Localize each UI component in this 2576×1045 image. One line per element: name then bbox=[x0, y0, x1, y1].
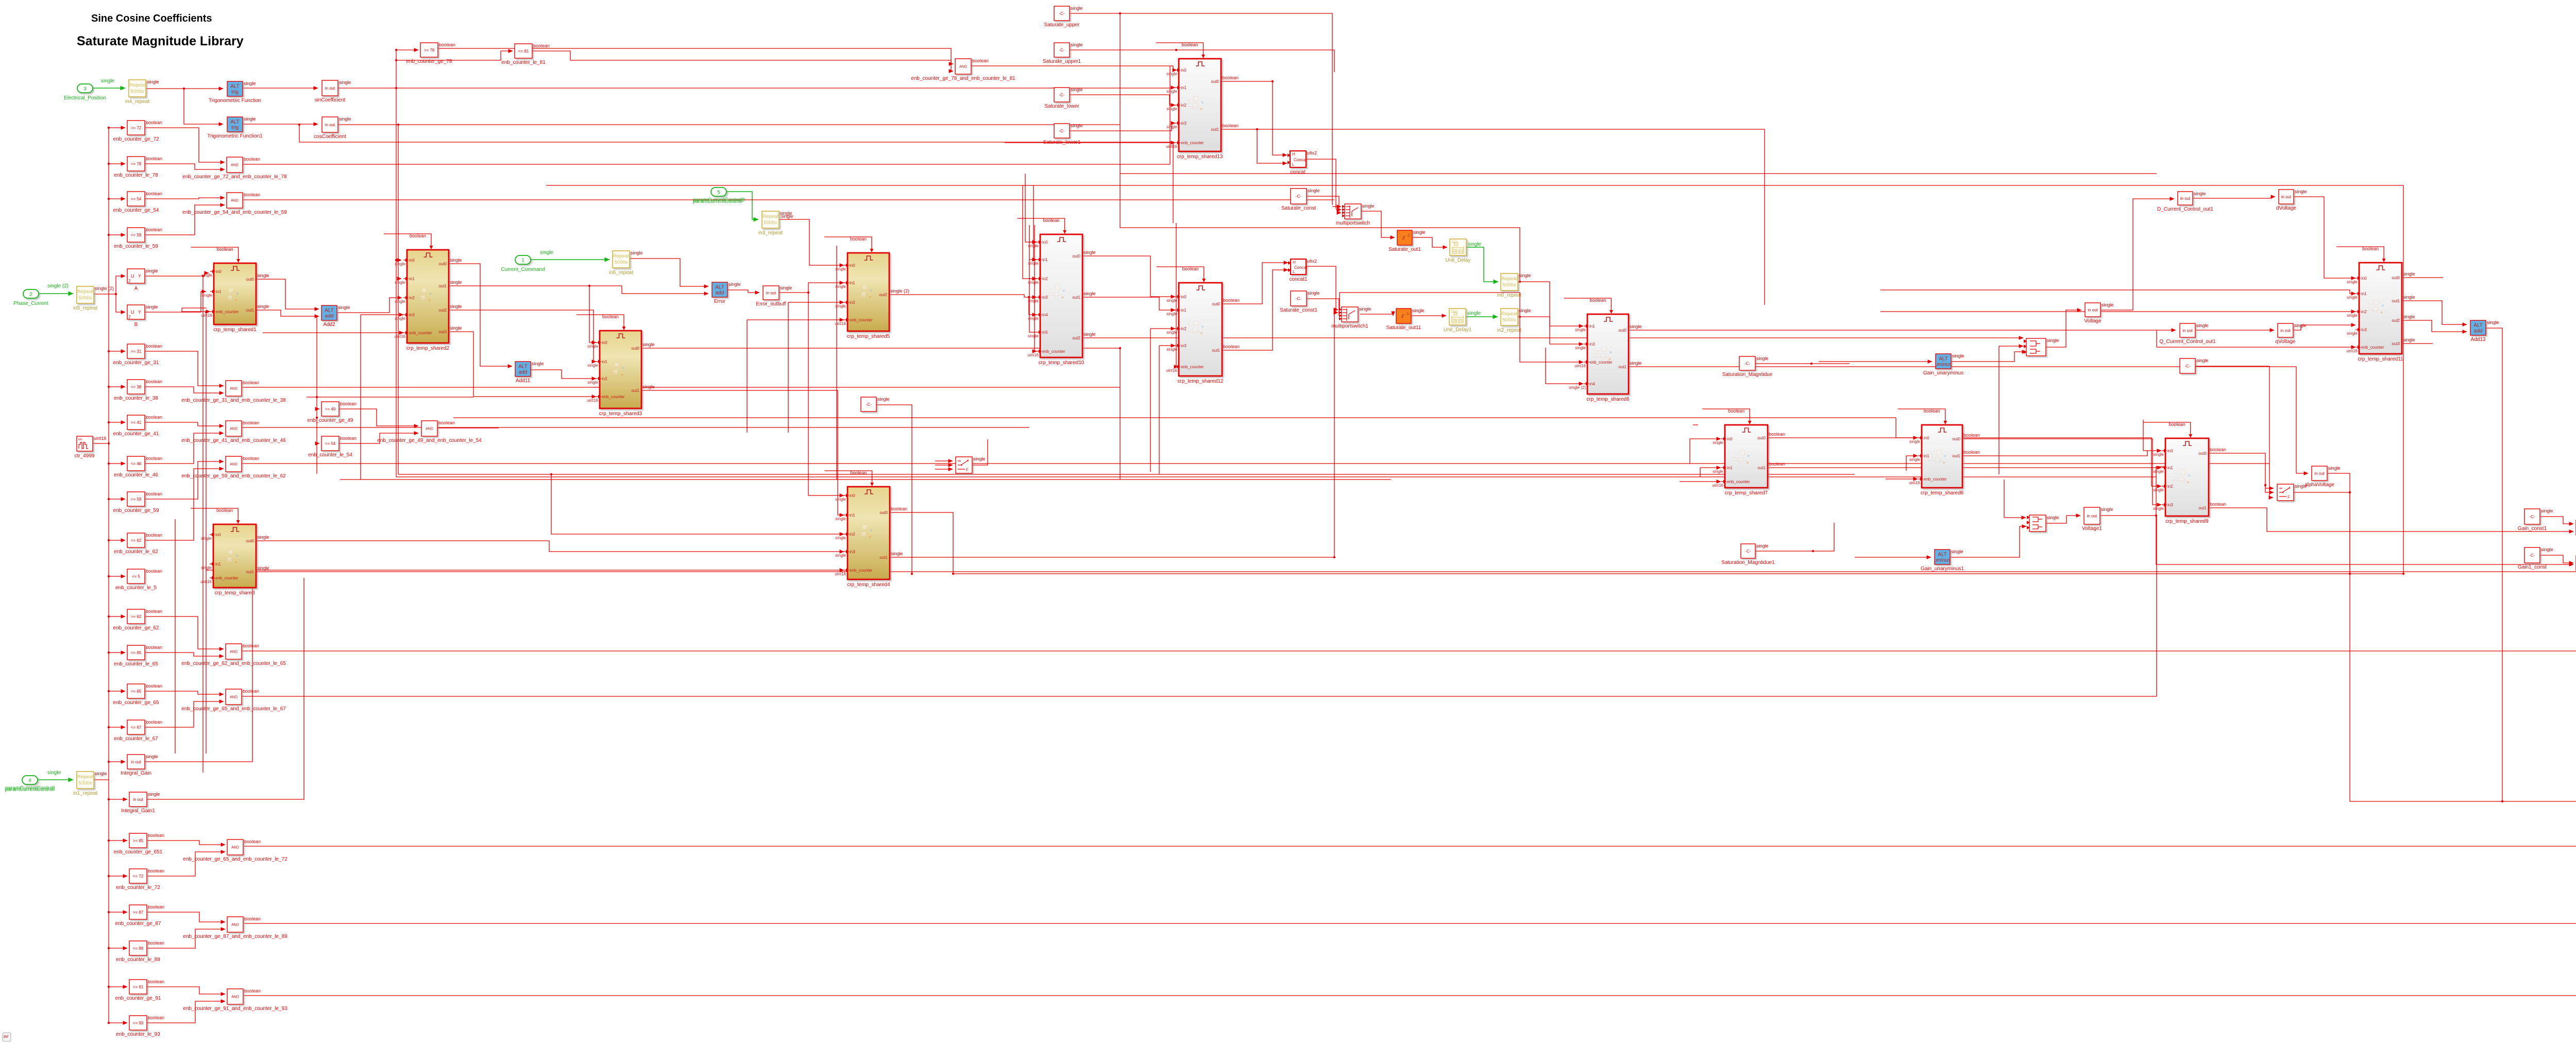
inport block Q_Current_Control_out1 bbox=[2159, 323, 2216, 345]
svg-text:out0: out0 bbox=[631, 346, 639, 351]
wire trunk AND ge54le59 y388 bbox=[242, 199, 1334, 200]
wire trunk y276 bbox=[299, 125, 1173, 223]
wire crp7 out0 to crp9 in2 bbox=[1768, 438, 2161, 486]
wire into switch1 mid bbox=[935, 465, 953, 466]
svg-text:boolean: boolean bbox=[146, 533, 162, 538]
svg-text:Gain_unaryminus: Gain_unaryminus bbox=[1923, 370, 1963, 376]
svg-text:H: H bbox=[1292, 152, 1295, 157]
wire boolean enable into subsystem crp_temp_shared12 bbox=[1157, 266, 1206, 282]
svg-text:in0: in0 bbox=[1181, 295, 1187, 299]
junction crp4 out0 trunk bbox=[952, 573, 954, 575]
svg-text:uint16: uint16 bbox=[394, 334, 405, 339]
svg-text:in3: in3 bbox=[2167, 503, 2173, 507]
AND gate enb_counter_ge_91_and_enb_counter_le_93 bbox=[183, 988, 287, 1012]
svg-text:add: add bbox=[325, 314, 334, 319]
wire ctr_4999 to trunk bbox=[93, 443, 107, 444]
svg-text:in0: in0 bbox=[2167, 449, 2173, 453]
wire trunk y1556 to Add1 in1 bbox=[2502, 801, 2576, 807]
compare block enb_counter_le_78 bbox=[114, 156, 162, 178]
svg-text:single: single bbox=[2153, 469, 2164, 474]
subsystem crp_temp_shared6 bbox=[1569, 314, 1641, 402]
svg-text:uint16: uint16 bbox=[587, 398, 598, 403]
svg-text:Concat: Concat bbox=[1294, 265, 1308, 270]
wire into crp9 in0 bbox=[2143, 450, 2161, 451]
compare block enb_counter_ge_78 bbox=[406, 42, 456, 64]
AND gate enb_counter_ge_49_and_enb_counter_le_54 bbox=[377, 420, 482, 443]
junction Integral_Gain input bbox=[108, 761, 110, 763]
svg-text:single: single bbox=[532, 361, 544, 366]
wire trunk y171 into crp13 in1 bbox=[1173, 88, 1175, 88]
svg-text:enb_counter_le_81: enb_counter_le_81 bbox=[501, 60, 546, 65]
svg-text:single: single bbox=[339, 80, 351, 85]
svg-text:-1: -1 bbox=[1406, 313, 1409, 316]
subsystem crp_temp_shared13 bbox=[1166, 59, 1239, 160]
svg-text:>= 54: >= 54 bbox=[131, 197, 142, 201]
svg-text:in0: in0 bbox=[850, 493, 855, 498]
wire enb_counter_ge_41_and_enb_counter_le_46 input A bbox=[145, 422, 224, 426]
wire Saturate_upper down to y360 bbox=[1120, 13, 1121, 185]
svg-text:in0: in0 bbox=[1727, 437, 1733, 441]
wire Saturate_lower to crp13 in2 bbox=[1070, 95, 1175, 105]
svg-text:in2_repeat: in2_repeat bbox=[1497, 328, 1521, 333]
compare block enb_counter_ge_72 bbox=[113, 120, 163, 142]
svg-text:5000x: 5000x bbox=[1503, 282, 1516, 288]
svg-text:single: single bbox=[147, 79, 159, 84]
svg-text:ALT: ALT bbox=[715, 285, 724, 290]
junction le54 input bbox=[316, 442, 318, 444]
svg-text:single: single bbox=[1083, 250, 1096, 255]
svg-text:F: F bbox=[966, 468, 969, 472]
svg-text:in0: in0 bbox=[1042, 240, 1048, 245]
wire boolean enable into subsystem crp_temp_shared3 bbox=[577, 314, 626, 330]
wire boolean enable into subsystem crp_temp_shared1 bbox=[191, 247, 241, 263]
svg-text:boolean: boolean bbox=[244, 157, 260, 162]
subsystem crp_temp_shared7 bbox=[1712, 425, 1785, 496]
svg-text:out1: out1 bbox=[631, 388, 639, 393]
wire Saturate_upper1 trunk bbox=[1070, 50, 1334, 72]
wire Unit_Delay to in0_repeat bbox=[1466, 247, 1498, 282]
wire sinCoefficient trunk y171 bbox=[338, 88, 1173, 89]
junction x615 y811 bbox=[316, 417, 318, 419]
compare block enb_counter_le_72 bbox=[116, 868, 164, 890]
svg-text:boolean: boolean bbox=[148, 979, 164, 984]
input port 1 Current_Command bbox=[501, 255, 545, 272]
svg-text:in out: in out bbox=[2314, 471, 2325, 476]
svg-text:dVoltage: dVoltage bbox=[2276, 205, 2296, 211]
wire D_Current_Control_out1 to dVoltage bbox=[2193, 197, 2275, 198]
svg-text:single: single bbox=[1519, 308, 1531, 313]
svg-text:enb_counter_ge_49_and_enb_coun: enb_counter_ge_49_and_enb_counter_le_54 bbox=[377, 438, 482, 443]
svg-text:out1: out1 bbox=[1618, 365, 1626, 369]
svg-text:boolean: boolean bbox=[146, 645, 162, 650]
svg-text:boolean: boolean bbox=[148, 940, 164, 946]
svg-text:single: single bbox=[146, 754, 158, 759]
svg-text:in1: in1 bbox=[1181, 308, 1187, 313]
wire crp9 out1 to Gain1 in2 bbox=[2209, 508, 2573, 532]
compare block enb_counter_le_81 bbox=[501, 43, 550, 65]
svg-text:single: single bbox=[244, 116, 256, 122]
wire enb_counter_ge_91_and_enb_counter_le_93 input A bbox=[147, 987, 225, 994]
svg-text:single: single bbox=[2487, 320, 2499, 325]
svg-text:single: single bbox=[1028, 299, 1039, 303]
wire in2_repeat branch to crp6 enb bbox=[1520, 317, 1583, 362]
svg-text:in1: in1 bbox=[216, 289, 222, 294]
svg-text:single: single bbox=[1166, 72, 1177, 76]
junction at enb_counter_ge_62 input bbox=[108, 615, 110, 618]
svg-text:in1_repeat: in1_repeat bbox=[73, 791, 97, 796]
svg-text:in3: in3 bbox=[2361, 328, 2367, 332]
svg-text:single: single bbox=[1166, 312, 1177, 316]
svg-text:single: single bbox=[835, 284, 846, 289]
svg-text:in3_repeat: in3_repeat bbox=[758, 230, 783, 236]
subsystem crp_temp_shared3 bbox=[587, 331, 654, 417]
junction Integral_Gain1 input bbox=[108, 798, 110, 800]
compare block enb_counter_le_38 bbox=[114, 379, 162, 401]
svg-text:single: single bbox=[1909, 457, 1920, 462]
wire Gain_unaryminus1 to mux3b bbox=[1951, 526, 2026, 557]
inport block Integral_Gain bbox=[121, 754, 158, 776]
svg-text:single: single bbox=[1359, 306, 1371, 312]
compare block enb_counter_ge_49 bbox=[308, 401, 357, 423]
constant block Saturate_const bbox=[1281, 188, 1320, 211]
wire into enb_counter_le_89 bbox=[109, 948, 127, 949]
svg-text:2: 2 bbox=[128, 315, 131, 319]
wire into enb_counter_le_46 bbox=[109, 463, 125, 464]
wire into Gain_unaryminus1 bbox=[1855, 557, 1931, 558]
svg-text:out3: out3 bbox=[438, 330, 447, 334]
svg-text:out1: out1 bbox=[2198, 506, 2207, 510]
svg-text:single: single bbox=[1028, 261, 1039, 266]
wire crp13 out0 to concat bbox=[1221, 81, 1287, 155]
svg-text:single: single bbox=[146, 304, 158, 310]
svg-text:in0: in0 bbox=[602, 340, 607, 345]
junction at enb_counter_le_38 input bbox=[108, 386, 110, 388]
svg-text:>= 31: >= 31 bbox=[131, 349, 142, 354]
svg-text:boolean: boolean bbox=[438, 420, 455, 425]
svg-text:enb_counter_ge_54_and_enb_coun: enb_counter_ge_54_and_enb_counter_le_59 bbox=[182, 210, 287, 215]
svg-text:enb_counter: enb_counter bbox=[1181, 365, 1204, 369]
wire into enb_counter_le_72 bbox=[109, 876, 127, 877]
svg-text:U: U bbox=[131, 273, 134, 279]
rate transition Unit_Delay1 bbox=[1444, 309, 1472, 333]
svg-text:in1: in1 bbox=[1924, 454, 1929, 458]
svg-text:<= 72: <= 72 bbox=[133, 874, 144, 879]
svg-text:ufix2: ufix2 bbox=[1307, 150, 1317, 156]
svg-text:single: single bbox=[835, 267, 846, 271]
junction Add13 trunk meet bbox=[2501, 800, 2503, 802]
wire Gain1_const to Gain11 bbox=[2540, 555, 2573, 563]
svg-text:ctr_4999: ctr_4999 bbox=[75, 453, 95, 459]
junction in0_repeat out bbox=[1519, 281, 1521, 283]
svg-text:single: single bbox=[1028, 316, 1039, 321]
wire trunk y1114 bbox=[953, 573, 2403, 574]
svg-text:single (2): single (2) bbox=[47, 283, 69, 289]
svg-text:-C-: -C- bbox=[1296, 194, 1301, 199]
svg-text:Gain1_const: Gain1_const bbox=[2518, 564, 2547, 570]
AND gate enb_counter_ge_72_and_enb_counter_le_78 bbox=[182, 157, 287, 180]
constant block Saturate_upper1 bbox=[1043, 42, 1083, 64]
svg-text:in3: in3 bbox=[1042, 295, 1048, 300]
svg-text:Y: Y bbox=[138, 310, 141, 315]
svg-text:boolean: boolean bbox=[533, 43, 550, 48]
svg-text:Integral_Gain: Integral_Gain bbox=[121, 770, 151, 776]
svg-text:crp_temp_shared2: crp_temp_shared2 bbox=[406, 346, 450, 351]
svg-text:boolean: boolean bbox=[891, 506, 907, 511]
wire enb_counter_ge_59_and_enb_counter_le_62 input B bbox=[145, 469, 224, 540]
svg-text:single: single bbox=[95, 771, 107, 776]
wire le_54 to AND bbox=[339, 433, 418, 443]
svg-text:single: single bbox=[1468, 242, 1482, 247]
svg-text:single: single bbox=[2403, 295, 2415, 300]
wire crp3 out0 trunk bbox=[641, 348, 1120, 479]
svg-text:Saturation_Magntidue: Saturation_Magntidue bbox=[1722, 372, 1773, 378]
wire into enb_counter_le_67 bbox=[109, 727, 125, 728]
wire in5_repeat to A bbox=[93, 276, 125, 294]
svg-text:boolean: boolean bbox=[850, 236, 867, 242]
wire crp9 out0 to switch9 mid bbox=[2265, 485, 2274, 492]
svg-text:single: single bbox=[1166, 347, 1177, 352]
wire into crp10 in0 bbox=[1029, 242, 1037, 243]
counter block ctr_4999 bbox=[75, 436, 107, 459]
svg-text:Integral_Gain1: Integral_Gain1 bbox=[121, 808, 155, 814]
svg-text:boolean: boolean bbox=[1769, 432, 1785, 437]
svg-text:in out: in out bbox=[2088, 307, 2098, 312]
svg-text:enb_counter_ge_91_and_enb_coun: enb_counter_ge_91_and_enb_counter_le_93 bbox=[183, 1006, 287, 1012]
repeat block in3_repeat bbox=[758, 211, 792, 236]
svg-text:>= 62: >= 62 bbox=[131, 614, 142, 619]
svg-text:single: single bbox=[201, 293, 212, 298]
svg-text:boolean: boolean bbox=[2210, 502, 2226, 507]
svg-text:in out: in out bbox=[766, 290, 776, 295]
subsystem crp_temp_shared12 bbox=[1166, 283, 1240, 384]
wire crp13 out1 branch right bbox=[1257, 129, 1765, 305]
svg-text:enb_counter_ge_651: enb_counter_ge_651 bbox=[114, 849, 163, 855]
wire Integral_Gain1 out bbox=[147, 578, 304, 799]
svg-text:in3: in3 bbox=[1589, 342, 1595, 347]
svg-text:single: single bbox=[2295, 189, 2307, 194]
subsystem crp_temp_shared9 bbox=[2153, 438, 2226, 524]
svg-text:boolean: boolean bbox=[146, 456, 162, 461]
wire crp6 out1 trunk bbox=[1629, 366, 2296, 367]
svg-text:lim: lim bbox=[78, 438, 82, 441]
svg-text:single: single bbox=[587, 344, 598, 349]
junction switch9 out bbox=[2349, 491, 2351, 493]
svg-text:out0: out0 bbox=[2198, 451, 2207, 456]
svg-text:U: U bbox=[131, 310, 134, 315]
svg-text:boolean: boolean bbox=[2362, 246, 2379, 251]
svg-text:in2: in2 bbox=[2361, 310, 2367, 314]
wire boolean enable into subsystem crp_temp_shared10 bbox=[1018, 218, 1067, 234]
svg-text:<= 81: <= 81 bbox=[518, 49, 529, 54]
svg-text:out0: out0 bbox=[1952, 437, 1960, 441]
wire AND ge49_le54 out bbox=[437, 427, 499, 429]
wire dVoltage out to crp11 in0 bbox=[2294, 197, 2355, 278]
wire into Gain_unaryminus bbox=[1819, 361, 1932, 362]
svg-text:-C-: -C- bbox=[1296, 296, 1301, 301]
wire into enb_counter_le_78 bbox=[109, 163, 125, 164]
svg-text:single: single bbox=[201, 536, 212, 541]
compare block enb_counter_ge_62 bbox=[113, 609, 163, 631]
svg-text:single: single bbox=[1083, 291, 1096, 296]
wire enb_counter_ge_65_and_enb_counter_le_72 input B bbox=[147, 852, 225, 876]
wire into enb_counter_ge_72 bbox=[109, 127, 125, 128]
svg-text:Repeat: Repeat bbox=[77, 289, 93, 295]
svg-text:boolean: boolean bbox=[1222, 75, 1239, 80]
junction crp2 in0 tap bbox=[395, 259, 397, 261]
svg-text:<= 38: <= 38 bbox=[131, 385, 142, 389]
wire x400 vertical to crp4 enb bbox=[206, 570, 844, 571]
inport block Error_outbuff bbox=[756, 285, 792, 307]
wire trunk AND ge91le93 y1933 bbox=[244, 995, 2576, 996]
svg-text:Repeat: Repeat bbox=[1501, 311, 1517, 317]
svg-text:single: single bbox=[1909, 439, 1920, 444]
wire alphaVoltage out down to trunk y1556 bbox=[2327, 473, 2502, 801]
wire crp6 out0 to Q_Current_Control_out1 bbox=[1629, 330, 2176, 331]
wire Add11 to crp3 in2 bbox=[531, 370, 596, 379]
svg-text:enb_counter_ge_59: enb_counter_ge_59 bbox=[113, 508, 159, 513]
svg-text:enb_counter: enb_counter bbox=[602, 395, 625, 399]
wire into crp2 enb bbox=[399, 332, 403, 333]
wire vertical x769 long bbox=[396, 50, 397, 477]
svg-text:ALT: ALT bbox=[230, 84, 240, 90]
add block Add2 bbox=[321, 305, 350, 328]
svg-text:single: single bbox=[1071, 87, 1083, 92]
svg-text:out1: out1 bbox=[246, 308, 254, 313]
svg-text:single: single bbox=[973, 456, 986, 461]
compare block enb_counter_ge_59 bbox=[113, 491, 163, 513]
compare block enb_counter_ge_91 bbox=[115, 979, 165, 1001]
wire crp11 enb bbox=[2157, 347, 2355, 348]
svg-text:single: single bbox=[835, 536, 846, 540]
svg-text:crp_temp_shared9: crp_temp_shared9 bbox=[2165, 519, 2209, 524]
svg-text:boolean: boolean bbox=[146, 415, 162, 420]
wire vertical x1624 bbox=[836, 246, 837, 479]
wire crp2 out0 to Add11 bbox=[449, 264, 512, 366]
svg-text:boolean: boolean bbox=[146, 191, 162, 196]
svg-text:boolean: boolean bbox=[340, 401, 357, 406]
svg-text:out3: out3 bbox=[2392, 341, 2400, 346]
mux block mux3b bbox=[2027, 515, 2059, 532]
constant block Saturate_lower1 bbox=[1043, 123, 1083, 145]
svg-text:in2: in2 bbox=[850, 532, 855, 537]
concat block concat1 bbox=[1288, 259, 1317, 282]
repeat block in0_repeat bbox=[1497, 273, 1531, 298]
svg-text:single: single bbox=[2196, 358, 2209, 363]
svg-text:Gain_unaryminus1: Gain_unaryminus1 bbox=[1921, 566, 1964, 572]
svg-text:uint16: uint16 bbox=[201, 313, 212, 318]
svg-text:boolean: boolean bbox=[1769, 461, 1785, 467]
junction at enb_counter_ge_87 input bbox=[108, 911, 110, 913]
inport block cosCoefficient bbox=[314, 116, 351, 140]
svg-text:in2: in2 bbox=[1042, 277, 1048, 281]
svg-text:AND: AND bbox=[231, 164, 239, 167]
svg-text:boolean: boolean bbox=[148, 868, 164, 873]
wire boolean enable into subsystem crp_temp_shared13 bbox=[1156, 42, 1206, 58]
svg-text:out2: out2 bbox=[2392, 318, 2400, 323]
svg-text:enb_counter: enb_counter bbox=[850, 318, 873, 322]
svg-text:single: single bbox=[1166, 107, 1177, 111]
AND gate enb_counter_ge_65_and_enb_counter_le_72 bbox=[183, 839, 287, 862]
svg-text:boolean: boolean bbox=[148, 833, 164, 838]
wire vertical x2283 crp12 enb bbox=[1176, 223, 1177, 367]
wire crp2 enb bbox=[263, 332, 403, 333]
repeat block in4_repeat bbox=[125, 79, 159, 105]
svg-text:AND: AND bbox=[426, 427, 433, 431]
wire into enb_counter_ge_62 bbox=[109, 616, 125, 617]
svg-text:AND: AND bbox=[230, 696, 238, 699]
svg-text:single: single bbox=[2294, 323, 2307, 328]
multiport switch multiportswitch1 bbox=[1331, 306, 1371, 329]
svg-text:<= 89: <= 89 bbox=[133, 946, 144, 951]
constant block Gain_const1 bbox=[2518, 508, 2553, 532]
svg-text:>= 65: >= 65 bbox=[133, 838, 144, 843]
wire crp10 out0 to crp12 in0 bbox=[1082, 256, 1175, 297]
svg-text:boolean: boolean bbox=[1182, 42, 1198, 47]
svg-text:boolean: boolean bbox=[1182, 266, 1199, 271]
svg-text:single: single bbox=[338, 305, 350, 310]
svg-text:uint16: uint16 bbox=[2346, 349, 2358, 353]
svg-text:single: single bbox=[1166, 298, 1177, 303]
svg-text:in0: in0 bbox=[2361, 276, 2367, 281]
wire into crp5 in2 bbox=[788, 302, 844, 303]
wire in5_repeat to B bbox=[116, 294, 125, 312]
svg-text:single: single bbox=[1756, 356, 1769, 361]
wire Saturate_out1 to Unit_Delay bbox=[1412, 237, 1447, 247]
wire into mux3a in2 bbox=[1999, 346, 2023, 347]
wire into switch1 F bbox=[935, 469, 953, 470]
svg-text:5000x: 5000x bbox=[79, 780, 92, 786]
wire trunk AND ge31le38 y752 bbox=[242, 387, 1120, 388]
svg-text:out0: out0 bbox=[879, 510, 888, 515]
svg-text:-C-: -C- bbox=[1059, 11, 1064, 16]
svg-text:boolean: boolean bbox=[340, 436, 357, 441]
svg-text:crp_temp_shared: crp_temp_shared bbox=[215, 590, 255, 596]
svg-text:ufix2: ufix2 bbox=[1307, 259, 1317, 264]
svg-text:ALT: ALT bbox=[325, 308, 334, 314]
wire boolean enable into subsystem crp_temp_shared2 bbox=[384, 233, 433, 249]
wire enb_counter_ge_62_and_enb_counter_le_65 input B bbox=[145, 653, 224, 656]
svg-text:Repeat: Repeat bbox=[129, 82, 145, 88]
svg-text:paramCurrentControlI: paramCurrentControlI bbox=[5, 785, 55, 791]
svg-text:boolean: boolean bbox=[146, 683, 162, 689]
svg-text:in4_repeat: in4_repeat bbox=[125, 99, 149, 105]
wire switch9 out to trunk y1114 bbox=[2349, 492, 2350, 574]
wire into multiportswitch in2 bbox=[1336, 209, 1341, 210]
junction at enb_counter_le_93 input bbox=[108, 1022, 110, 1024]
svg-text:2: 2 bbox=[29, 292, 32, 298]
svg-text:enb_counter_ge_65_and_enb_coun: enb_counter_ge_65_and_enb_counter_le_72 bbox=[183, 856, 287, 862]
svg-text:single: single bbox=[835, 517, 846, 521]
repeat block in6_repeat bbox=[609, 250, 643, 276]
wire enb_counter_ge_87_and_enb_counter_le_89 input A bbox=[147, 912, 225, 922]
junction crp3 out0 bbox=[1119, 347, 1121, 349]
svg-text:out0: out0 bbox=[1757, 436, 1766, 440]
wire into ge_49 bbox=[317, 408, 319, 409]
wire into enb_counter_le_5 bbox=[109, 576, 125, 577]
wire enb_counter_ge_31_and_enb_counter_le_38 input A bbox=[145, 351, 224, 386]
svg-text:single: single bbox=[257, 273, 269, 278]
wire into crp7 enb bbox=[1680, 481, 1721, 482]
wire into enb_counter_ge_65 bbox=[109, 691, 125, 692]
wire crp1 enb bbox=[182, 308, 207, 312]
svg-text:single: single bbox=[1166, 89, 1177, 94]
svg-text:AND: AND bbox=[231, 923, 239, 927]
wire crp11 out0 bbox=[2402, 277, 2443, 278]
svg-text:single (2): single (2) bbox=[95, 286, 114, 291]
wire trunk y921 into crp4 in2 bbox=[551, 474, 844, 534]
wire in0_repeat feedback to y360 trunk bbox=[1120, 185, 1520, 282]
svg-text:crp_temp_shared7: crp_temp_shared7 bbox=[1725, 490, 1768, 496]
